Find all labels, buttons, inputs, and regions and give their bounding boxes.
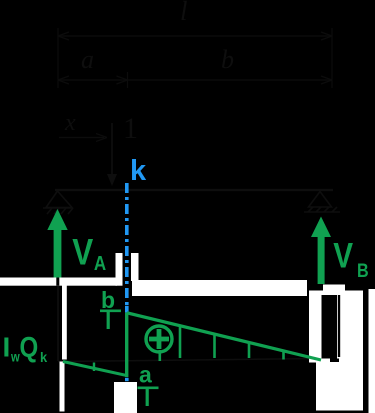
tall white bar at A lower part: [60, 362, 65, 412]
svg-text:w: w: [10, 349, 20, 364]
svg-text:l: l: [180, 0, 188, 26]
white box left of a/l label: [114, 382, 137, 413]
black strip under B box: [312, 411, 341, 413]
influence line positive part k to B: [127, 313, 321, 360]
svg-text:l: l: [105, 308, 111, 334]
support A: [43, 191, 73, 214]
svg-text:A: A: [94, 252, 106, 275]
svg-text:k: k: [130, 155, 147, 187]
tall white bar at A upper part: [62, 284, 67, 360]
unit load arrow P=1: [111, 123, 113, 180]
vertical line at A down to axis: [57, 277, 59, 361]
small white patch left of B above band: [323, 285, 345, 292]
blue dash-dot section line k: [125, 183, 129, 305]
axis line A-B of influence diagram (invisible dark): [58, 359, 321, 362]
dimension line b: [128, 76, 333, 84]
white band left of k: [0, 278, 117, 286]
svg-text:V: V: [72, 232, 93, 273]
svg-text:k: k: [40, 350, 48, 366]
dimension line l: [58, 32, 332, 40]
hatch lines of positive area: [180, 326, 284, 360]
small hatch on negative part: [93, 363, 95, 372]
white band right of k: [132, 280, 307, 296]
influence line negative part A to k: [63, 362, 128, 376]
reaction arrow V_B: [311, 217, 331, 285]
white column at right edge: [369, 289, 375, 413]
svg-text:Q: Q: [20, 331, 39, 364]
witness line at k: [127, 72, 129, 88]
black bottom-left bit of B box: [330, 359, 339, 363]
dimension arrow x: [59, 134, 107, 142]
hatch under plus circle: [159, 350, 162, 361]
black rect inside B box: [322, 295, 338, 359]
svg-text:a: a: [139, 362, 152, 388]
green jump line at k: [125, 313, 128, 378]
label Iw Qk (influence line name): [3, 331, 48, 365]
svg-text:B: B: [357, 260, 369, 282]
label V_B: [333, 236, 368, 281]
black thin line inside B box: [338, 295, 340, 357]
label V_A: [72, 232, 106, 274]
svg-text:b: b: [221, 45, 234, 74]
witness line at B: [331, 28, 333, 88]
white box region at B: [309, 291, 363, 363]
support B: [304, 192, 340, 213]
svg-text:a: a: [81, 45, 94, 74]
dimension line a: [58, 76, 128, 84]
white column right of blue line: [131, 253, 139, 281]
black notch of A line crossing band: [56, 278, 59, 286]
reaction arrow V_A: [47, 209, 67, 278]
black vertical bar right: [363, 289, 369, 413]
svg-text:l: l: [144, 385, 150, 411]
svg-text:V: V: [333, 236, 353, 275]
blue dot at bottom of k line: [125, 378, 129, 381]
svg-text:x: x: [64, 110, 76, 136]
svg-text:1: 1: [123, 112, 138, 145]
svg-text:I: I: [3, 332, 11, 363]
plus sign circle: [146, 326, 172, 352]
beam: [55, 189, 333, 191]
witness line at A: [57, 28, 59, 88]
white column left of blue line: [116, 253, 123, 286]
